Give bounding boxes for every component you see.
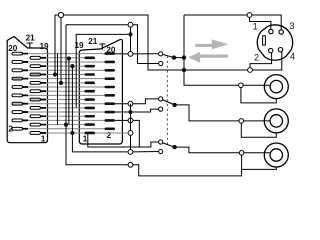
wire: J2 inner pin1 tail (95, 132, 128, 134)
wire S1 pole (174, 57, 184, 59)
switch S2 contact b (159, 107, 163, 111)
RCA jack J5 (bottom) outer (264, 143, 288, 167)
switch S2 contact a (159, 97, 163, 101)
S-video bottom terminal (248, 68, 253, 73)
RCA J4 ground loop (241, 123, 276, 137)
junction dot pole vertical on bottom run (182, 68, 186, 72)
terminal on column (J2 pin1 tail) (128, 131, 133, 136)
RCA J3 terminal (239, 83, 244, 88)
wire: top terminal to pin 3 (252, 15, 281, 30)
wire g6 terminal to S3 contact b (133, 151, 159, 153)
mini-DIN key slot (263, 36, 266, 45)
wire: terminal A to switch S1 contact b (133, 25, 159, 64)
J1 left column pin contacts (pins 20..2) (12, 52, 23, 130)
S-video top terminal (247, 13, 252, 18)
tap wire g1 to S-video ground run (55, 15, 250, 75)
svg-text:1: 1 (83, 134, 88, 143)
J1 pin 21 shield symbol (27, 43, 33, 48)
switch S1 pole dot (172, 55, 176, 59)
svg-text:2: 2 (254, 53, 259, 63)
wire RCA J3 terminal to center pin (243, 84, 270, 86)
junction dot g7 run (128, 32, 132, 36)
tap wire g5 (68, 59, 70, 125)
terminal on bottom bus (128, 162, 133, 167)
terminal (J2 tail row k6) (128, 101, 133, 106)
RCA J5 terminal (239, 151, 244, 156)
SCART connector J1 (left) body outline (7, 37, 47, 143)
RCA jack J5 inner (270, 149, 282, 161)
RCA jack J4 inner (270, 115, 282, 127)
S-video pin 4 (278, 48, 282, 52)
svg-text:21: 21 (26, 33, 36, 42)
terminal on column (row k8) (128, 118, 133, 123)
switch S2 lever (163, 100, 175, 105)
wire: terminal column to S2 contact a (115, 99, 159, 104)
junction dot S1 pole/vertical (182, 55, 186, 59)
wire: J2 pin20 tail through terminal B to S1 contact a (115, 53, 159, 55)
S-video pin 1 (269, 29, 273, 33)
J2 left (inner) column pin contacts (85, 57, 96, 135)
tap wire g7 (76, 34, 128, 108)
terminal A (128, 22, 133, 27)
wire: S-video top run and pole vertical down to RCA1 terminal (184, 15, 247, 85)
svg-text:19: 19 (40, 42, 50, 51)
wire: bottom terminal to pin 4 (252, 52, 281, 70)
wire RCA J4 terminal to center pin (244, 120, 271, 122)
wire terminal A down (130, 27, 132, 51)
switch S1 contact a (159, 52, 163, 56)
pass-through wires between J1 and J2 pins (23, 54, 106, 129)
J1 right column pin contacts (pins 19..1) (30, 56, 41, 134)
S-video pin 3 (279, 30, 283, 34)
RCA J3 ground loop (241, 88, 276, 103)
svg-text:2: 2 (107, 131, 112, 140)
switch S3 contact a (159, 140, 163, 144)
svg-text:3: 3 (289, 21, 294, 31)
switch S2 pole dot (172, 103, 176, 107)
S-video pin 2 (269, 48, 273, 52)
direction arrow left (gray) (188, 52, 228, 63)
wire: g4 top run to terminal column (66, 24, 128, 26)
wire S2 pole to RCA2 terminal (175, 105, 239, 121)
junction dot g6 on jog row (70, 131, 74, 135)
wire S3 pole to RCA3 terminal (175, 147, 240, 153)
terminal on column (bottom) (128, 150, 133, 155)
RCA jack J3 inner (270, 80, 282, 92)
switch S3 contact b (159, 149, 163, 153)
S-video connector U1 (mini-DIN 4) shell (257, 25, 292, 60)
bottom bus g4 to RCA J5 ground (133, 165, 242, 176)
J2 right (outer) column pin contacts (105, 52, 116, 130)
terminal B (J2 pin20 tail) (128, 52, 133, 57)
direction arrow right (gray) (195, 39, 228, 49)
junction dot g5 (67, 56, 71, 60)
wire RCA J5 terminal to center pin (244, 152, 270, 154)
svg-text:1: 1 (41, 134, 46, 143)
switch S1 lever (163, 54, 174, 57)
SCART connector J2 (right) body outline (79, 39, 122, 144)
svg-text:21: 21 (88, 37, 98, 46)
tap wire g3 (60, 18, 62, 83)
wire: J2 tail to S2 contact b (115, 109, 159, 112)
wire: J2 tail row k8 to under-body run (115, 120, 139, 147)
RCA jack J3 (top) outer (264, 75, 288, 99)
junction dot g1 (53, 72, 57, 76)
tap wire g6 to switch S3 (72, 66, 128, 152)
tap wire g2 (57, 54, 59, 125)
junction dot g6 (70, 64, 74, 68)
junction dot g4 (64, 123, 68, 127)
junction dot g3 (59, 81, 63, 85)
terminal column vertical (130, 104, 132, 152)
switch S1 contact b (159, 61, 163, 65)
svg-text:1: 1 (253, 22, 258, 32)
svg-text:4: 4 (290, 51, 295, 61)
tap wire g4 to bottom bus (66, 25, 128, 165)
RCA J4 terminal (239, 119, 244, 124)
wire: bottom terminal to pin 2 (250, 53, 272, 68)
RCA J5 ground loop (242, 155, 277, 169)
wire: top terminal to pin 1 (250, 17, 271, 29)
junction dot (J2 tail row k7) (128, 110, 132, 114)
J1 pin stubs (23, 54, 47, 133)
ganged switch link (dashed) (166, 56, 168, 146)
switch S3 pole dot (172, 145, 176, 149)
wire: last outer row (pin 2) jogging under J2 to switch S3 (41, 132, 88, 134)
RCA jack J4 (middle) outer (264, 109, 288, 133)
switch S3 lever (163, 143, 175, 147)
terminal on top run (58, 12, 63, 17)
J2 pin 21 shield symbol (99, 44, 105, 50)
